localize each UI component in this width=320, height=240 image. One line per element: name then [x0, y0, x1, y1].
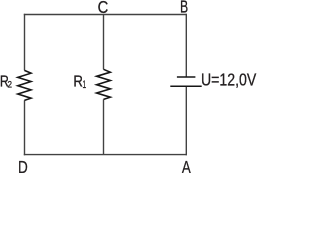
svg-text:R: R: [73, 73, 83, 90]
wire middle upper (node C down to R1): [103, 15, 105, 70]
wire bottom (node D / node A rail): [24, 154, 187, 156]
svg-text:1: 1: [83, 78, 87, 90]
svg-text:C: C: [98, 0, 109, 17]
wire right lower (battery negative plate down to node A): [185, 86, 187, 155]
svg-text:B: B: [180, 0, 188, 17]
svg-text:A: A: [182, 158, 191, 173]
svg-text:D: D: [18, 158, 28, 173]
wire middle lower (R1 down to bottom rail): [103, 99, 105, 154]
wire right upper (node B down to battery positive plate): [185, 14, 187, 77]
wire left upper (B-C rail corner down to R2): [24, 14, 26, 71]
resistor R2 (zigzag, left branch): [18, 70, 31, 100]
svg-text:U=12,0V: U=12,0V: [201, 71, 257, 90]
wire top (node C / node B rail): [24, 14, 187, 16]
resistor R1 (zigzag, middle branch): [97, 69, 111, 99]
label R1: [73, 73, 86, 90]
svg-text:2: 2: [7, 79, 12, 90]
battery U negative plate (long lower plate): [170, 85, 201, 87]
label R2: [0, 73, 12, 91]
wire left lower (R2 down to node D corner): [24, 100, 26, 155]
battery U positive plate (short upper plate): [177, 76, 196, 78]
